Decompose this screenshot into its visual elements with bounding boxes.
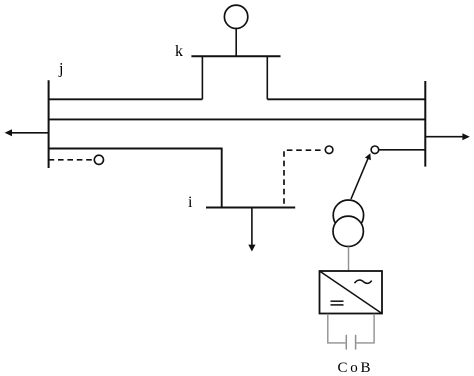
wire bus j to bus i (49, 149, 222, 208)
bus j (48, 80, 50, 168)
switch blade with arrow (351, 153, 371, 199)
wire generator to bus k (235, 29, 237, 57)
switch hinge circle (371, 146, 379, 154)
dashed measurement line at bus j (49, 159, 94, 161)
bus i (206, 207, 295, 209)
wire line k-right bus at y=99 right segment (267, 98, 425, 100)
wire transformer to converter (348, 247, 350, 272)
svg-text:i: i (188, 194, 193, 211)
wire line j-k at y=99 left segment (49, 98, 203, 100)
transformer T winding 1 (333, 200, 363, 230)
svg-text:k: k (175, 43, 183, 60)
measurement circle at bus j (94, 155, 103, 164)
wire bus k left drop (201, 56, 203, 99)
converter VSC box (320, 271, 383, 314)
DC symbol = (331, 301, 344, 305)
AC symbol ~ (355, 280, 372, 283)
svg-text:С о В: С о В (338, 360, 371, 376)
capacitor branch right lead (356, 314, 374, 343)
dashed measurement line at bus i (284, 150, 325, 204)
measurement circle at switch (325, 146, 333, 154)
transformer T winding 2 (333, 216, 363, 246)
capacitor C plate left (345, 335, 347, 350)
right load arrow (425, 133, 470, 140)
wire line j-right bus at y=119 (49, 118, 426, 120)
right bus (424, 81, 426, 167)
capacitor C plate right (355, 335, 357, 350)
left load arrow (5, 129, 49, 136)
wire switch to right bus (379, 149, 426, 151)
load arrow at bus i (248, 208, 255, 252)
generator G (224, 5, 247, 28)
wire bus k right drop (266, 56, 268, 99)
capacitor branch left lead (328, 314, 346, 343)
bus k (191, 55, 280, 57)
svg-text:j: j (58, 61, 63, 78)
converter diagonal (320, 271, 383, 314)
